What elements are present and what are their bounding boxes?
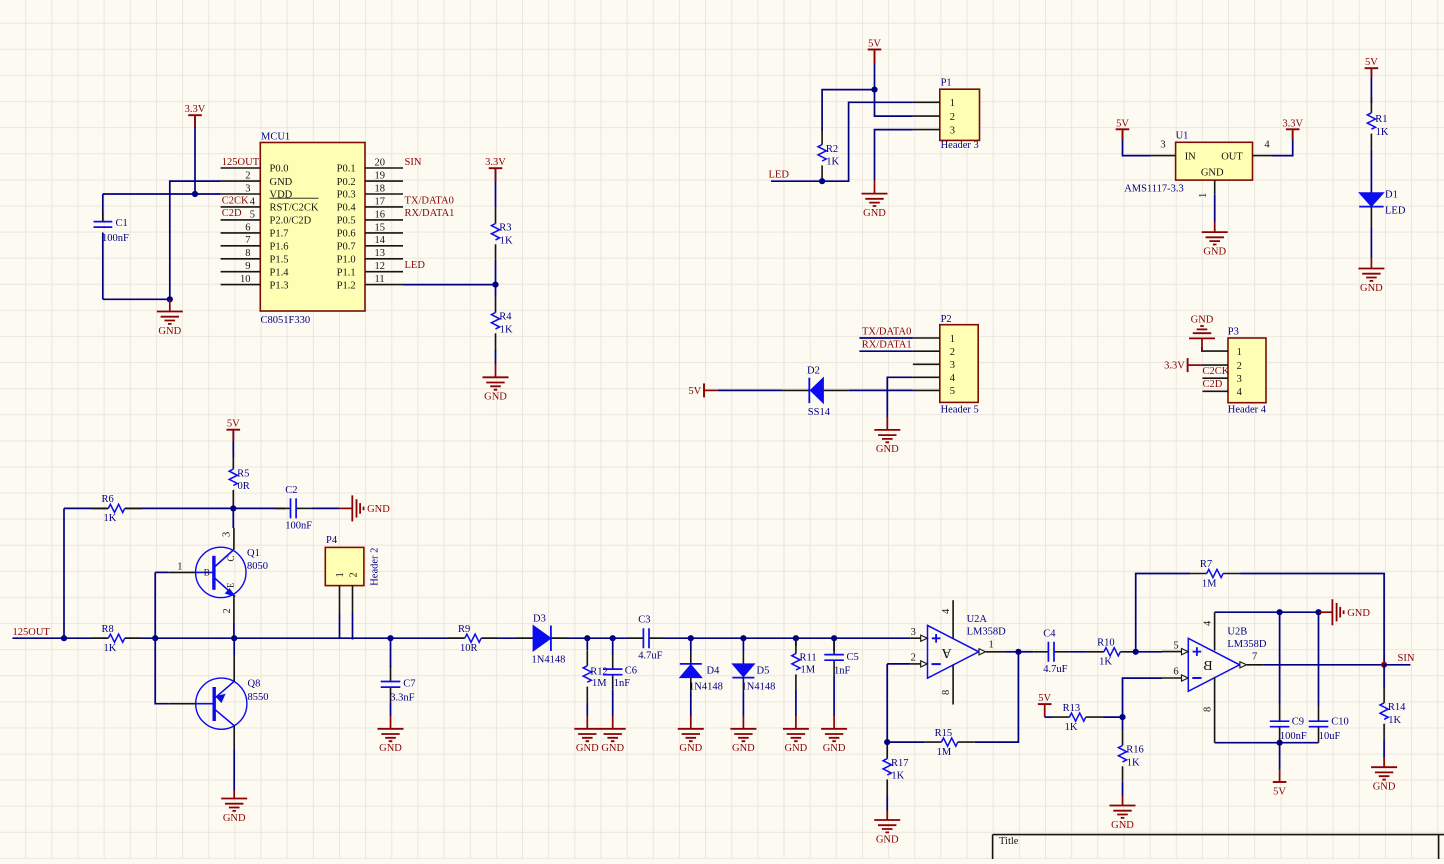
svg-text:3.3V: 3.3V	[485, 157, 506, 168]
power 5V at R13	[1038, 703, 1052, 705]
ground GND below D1	[1370, 258, 1372, 269]
svg-text:1M: 1M	[1202, 578, 1217, 589]
svg-text:R9: R9	[458, 624, 470, 635]
svg-text:P3: P3	[1228, 327, 1239, 338]
power 5V above R1	[1370, 70, 1372, 104]
junction bus/D4	[688, 635, 694, 641]
svg-text:R4: R4	[499, 312, 512, 323]
power 3.3V above R3	[495, 169, 497, 208]
MCU left pins	[221, 167, 261, 169]
transistor Q1 8050	[196, 547, 246, 597]
svg-text:18: 18	[375, 183, 386, 194]
svg-text:SIN: SIN	[1398, 653, 1415, 664]
op-amp U2B LM358D	[1188, 638, 1239, 691]
svg-text:12: 12	[375, 261, 386, 272]
U1 pin 3	[1151, 155, 1176, 157]
svg-text:GND: GND	[270, 177, 293, 188]
svg-text:C2D: C2D	[1203, 379, 1223, 390]
svg-text:3.3V: 3.3V	[1282, 118, 1303, 129]
resistor R13 1K	[1052, 716, 1069, 718]
svg-text:R7: R7	[1200, 559, 1212, 570]
svg-text:P1.7: P1.7	[270, 229, 289, 240]
junction SIN node	[1381, 662, 1387, 668]
U2B pin 5 input	[1162, 651, 1182, 653]
svg-text:1K: 1K	[500, 236, 513, 247]
capacitor C5 1nF	[833, 638, 835, 651]
svg-text:Title: Title	[999, 836, 1019, 847]
svg-text:P1.5: P1.5	[270, 255, 289, 266]
resistor R11 1M	[795, 638, 797, 646]
svg-text:Q1: Q1	[247, 548, 260, 559]
svg-text:LED: LED	[1385, 206, 1406, 217]
svg-text:C5: C5	[847, 652, 859, 663]
svg-text:19: 19	[375, 171, 386, 182]
svg-text:C2CK: C2CK	[1203, 366, 1230, 377]
svg-text:4: 4	[250, 196, 256, 207]
junction bus/Q emitters	[231, 635, 237, 641]
junction bus/R6	[61, 635, 67, 641]
svg-text:4: 4	[1264, 139, 1270, 150]
wire 5V branch to R2	[822, 90, 874, 131]
svg-text:P0.5: P0.5	[337, 216, 356, 227]
svg-text:3.3V: 3.3V	[1164, 361, 1185, 372]
power 3.3V at P3 pin 2	[1187, 358, 1189, 372]
svg-text:GND: GND	[785, 743, 808, 754]
svg-text:1: 1	[950, 334, 955, 345]
ground GND below D5	[742, 715, 744, 729]
svg-text:P2.0/C2D: P2.0/C2D	[270, 216, 312, 227]
svg-text:P0.2: P0.2	[337, 177, 356, 188]
svg-text:2: 2	[950, 112, 955, 123]
svg-text:17: 17	[375, 196, 386, 207]
wire R10 to junction	[1136, 651, 1138, 653]
svg-text:5V: 5V	[227, 419, 240, 430]
svg-text:A: A	[941, 645, 952, 660]
svg-text:U1: U1	[1176, 130, 1189, 141]
ground GND below R11	[795, 715, 797, 729]
svg-text:R13: R13	[1063, 703, 1081, 714]
P3 pins	[1203, 350, 1229, 352]
svg-text:C1: C1	[116, 218, 128, 229]
U2B top rail	[1215, 611, 1319, 613]
svg-text:R10: R10	[1097, 638, 1115, 649]
junction top rail/C9	[1277, 609, 1283, 615]
junction R10/R7/pin5	[1133, 649, 1139, 655]
Q8 collector pin to ground	[233, 726, 235, 750]
svg-text:MCU1: MCU1	[261, 131, 290, 142]
svg-text:3: 3	[1237, 374, 1242, 385]
wire junction up to U2B pin 6	[1123, 678, 1163, 717]
svg-text:D2: D2	[807, 366, 820, 377]
svg-text:0R: 0R	[238, 481, 250, 492]
diode D3 1N4148	[516, 637, 533, 639]
svg-text:P1.4: P1.4	[270, 267, 290, 278]
U2A pin 8 stub	[952, 665, 954, 705]
svg-text:3: 3	[950, 125, 955, 136]
resistor R6 1K	[91, 507, 108, 509]
svg-text:3.3V: 3.3V	[185, 104, 206, 115]
resistor R9 10R	[448, 637, 465, 639]
Q1 base pin	[168, 571, 195, 573]
P4 pins down to bus	[339, 586, 341, 613]
svg-text:LM358D: LM358D	[1227, 639, 1267, 650]
svg-text:GND: GND	[679, 743, 702, 754]
ground GND below P1	[874, 180, 876, 194]
resistor R17 1K	[886, 741, 888, 744]
svg-text:1N4148: 1N4148	[532, 654, 566, 665]
svg-text:1: 1	[989, 639, 994, 650]
power 3.3V at MCU	[194, 117, 196, 194]
svg-text:1: 1	[177, 562, 182, 573]
svg-text:R12: R12	[590, 666, 608, 677]
svg-text:1K: 1K	[104, 513, 117, 524]
MCU1 C8051F330 body	[260, 143, 365, 312]
svg-text:GND: GND	[1201, 167, 1224, 178]
power 5V at U1 input	[1123, 131, 1151, 156]
wire P1 pin 1 to LED net	[771, 102, 913, 181]
svg-text:2: 2	[245, 171, 250, 182]
U2B pin 4 stub to top rail	[1214, 612, 1216, 650]
svg-text:TX/DATA0: TX/DATA0	[862, 327, 911, 338]
junction top rail/C10	[1315, 609, 1321, 615]
svg-text:9: 9	[245, 261, 250, 272]
capacitor C2 100nF	[233, 507, 285, 509]
svg-text:4: 4	[950, 373, 956, 384]
wire P2 pin 4 to ground	[887, 377, 913, 417]
svg-text:3: 3	[222, 532, 233, 537]
svg-text:2: 2	[222, 608, 233, 613]
junction bus/R12	[584, 635, 590, 641]
svg-text:OUT: OUT	[1221, 151, 1243, 162]
wire R7 to SIN riser	[1240, 574, 1384, 665]
svg-text:GND: GND	[1373, 782, 1396, 793]
resistor R16 1K	[1122, 730, 1124, 746]
svg-text:15: 15	[375, 222, 386, 233]
wire R17 top	[886, 664, 888, 742]
svg-text:5: 5	[950, 386, 955, 397]
svg-text:R1: R1	[1375, 114, 1387, 125]
wire P3 pin 1 up to flipped ground	[1201, 347, 1204, 351]
wire collector Q1 to R5 node	[232, 508, 234, 528]
P2 pins	[913, 337, 940, 339]
ground GND below C1	[169, 299, 171, 311]
header P1 body	[940, 89, 980, 140]
svg-text:5V: 5V	[1116, 118, 1129, 129]
resistor R3 1K	[495, 208, 497, 224]
svg-text:5V: 5V	[1038, 693, 1051, 704]
svg-text:1K: 1K	[891, 771, 904, 782]
svg-text:125OUT: 125OUT	[222, 157, 260, 168]
header P2 body	[940, 325, 978, 403]
svg-text:1K: 1K	[826, 157, 839, 168]
svg-text:5V: 5V	[1273, 787, 1286, 798]
junction R2/LED	[819, 178, 825, 184]
ground GND below C7	[390, 715, 392, 729]
svg-text:8050: 8050	[247, 561, 268, 572]
svg-text:GND: GND	[1203, 246, 1226, 257]
svg-text:GND: GND	[1111, 820, 1134, 831]
svg-text:P4: P4	[326, 535, 338, 546]
resistor R5 0R	[232, 454, 234, 470]
junction 5V node	[871, 87, 877, 93]
svg-text:GND: GND	[1360, 283, 1383, 294]
svg-text:R6: R6	[102, 494, 114, 505]
svg-text:1: 1	[335, 572, 346, 577]
svg-text:3.3nF: 3.3nF	[390, 692, 414, 703]
svg-text:P0.6: P0.6	[337, 229, 356, 240]
wire D2 to P2 pin 5	[849, 389, 913, 391]
resistor R1 1K	[1370, 97, 1372, 113]
op-amp U2A LM358D	[928, 625, 979, 678]
capacitor C4 4.7uF	[1033, 651, 1048, 653]
svg-text:RST/C2CK: RST/C2CK	[270, 203, 319, 214]
svg-text:P1.6: P1.6	[270, 242, 289, 253]
capacitor C10 10uF	[1318, 612, 1320, 705]
svg-text:2: 2	[348, 572, 359, 577]
svg-text:1K: 1K	[1388, 715, 1401, 726]
svg-text:1M: 1M	[937, 747, 952, 758]
svg-text:1K: 1K	[1127, 758, 1140, 769]
capacitor C7 3.3nF	[390, 638, 392, 667]
wire main 125OUT bus	[13, 637, 108, 639]
svg-text:U2B: U2B	[1227, 627, 1247, 638]
svg-text:C2CK: C2CK	[222, 195, 249, 206]
svg-text:10uF: 10uF	[1319, 731, 1341, 742]
svg-text:P0.4: P0.4	[337, 203, 357, 214]
svg-text:P0.0: P0.0	[270, 164, 289, 175]
svg-text:4: 4	[1202, 620, 1213, 626]
svg-text:16: 16	[375, 209, 386, 220]
svg-text:P1: P1	[941, 77, 952, 88]
wire R6 down to 125OUT bus	[63, 508, 65, 638]
svg-text:8: 8	[245, 248, 250, 259]
U1 GND pin	[1214, 180, 1216, 194]
svg-text:Q8: Q8	[248, 678, 261, 689]
svg-text:2: 2	[950, 347, 955, 358]
svg-text:RX/DATA1: RX/DATA1	[405, 208, 455, 219]
diode D2 SS14	[782, 389, 809, 391]
svg-text:C4: C4	[1043, 628, 1056, 639]
svg-text:4: 4	[941, 608, 952, 614]
power 5V at D2 anode	[703, 383, 705, 397]
resistor R2 1K	[821, 129, 823, 145]
transistor Q8 8550	[196, 678, 247, 729]
svg-text:20: 20	[375, 157, 386, 168]
svg-text:C2D: C2D	[222, 208, 242, 219]
U2A pin 3 input	[910, 637, 921, 639]
capacitor C3 4.7uF	[628, 637, 643, 639]
svg-text:1M: 1M	[592, 678, 607, 689]
svg-text:GND: GND	[223, 813, 246, 824]
svg-text:7: 7	[1252, 652, 1257, 663]
U2A pin 4 stub	[952, 600, 954, 638]
svg-text:C7: C7	[403, 678, 415, 689]
svg-text:R3: R3	[499, 223, 511, 234]
svg-text:GND: GND	[876, 444, 899, 455]
svg-text:VDD: VDD	[270, 190, 293, 201]
capacitor C1 100nF	[102, 194, 104, 222]
svg-text:P0.7: P0.7	[337, 242, 356, 253]
svg-text:Header 3: Header 3	[941, 140, 979, 151]
svg-text:1K: 1K	[1099, 657, 1112, 668]
ground GND below U1	[1214, 222, 1216, 233]
header P3 body	[1228, 338, 1266, 403]
svg-text:4.7uF: 4.7uF	[1043, 664, 1067, 675]
wire base rail	[155, 571, 168, 573]
svg-text:5: 5	[250, 209, 255, 220]
Q8 base pin	[169, 703, 196, 705]
junction R15/R17	[884, 739, 890, 745]
junction R13/R16/pin6	[1119, 714, 1125, 720]
capacitor C6 1nF	[612, 638, 614, 655]
U2A output pin 1	[979, 649, 986, 655]
wire R6 row	[64, 507, 108, 509]
power 5V below bottom rail	[1279, 743, 1281, 769]
diode D5 1N4148	[742, 638, 744, 651]
svg-text:GND: GND	[823, 743, 846, 754]
svg-text:B: B	[204, 568, 210, 578]
ground GND below R14	[1383, 757, 1385, 767]
svg-text:1K: 1K	[104, 643, 117, 654]
svg-text:1: 1	[950, 98, 955, 109]
svg-text:GND: GND	[367, 504, 390, 515]
ground GND below R4	[495, 364, 497, 377]
svg-text:LM358D: LM358D	[967, 626, 1007, 637]
power 5V above R5	[232, 431, 234, 457]
svg-text:1: 1	[1198, 193, 1209, 198]
resistor R10 1K	[1087, 651, 1104, 653]
svg-text:GND: GND	[876, 834, 899, 845]
svg-text:1: 1	[1237, 347, 1242, 358]
svg-text:2: 2	[1237, 361, 1242, 372]
svg-text:C3: C3	[638, 615, 650, 626]
junction bus/C7	[387, 635, 393, 641]
resistor R12 1M	[586, 638, 588, 650]
svg-text:GND: GND	[601, 743, 624, 754]
svg-text:1K: 1K	[500, 325, 513, 336]
resistor R7 1M	[1190, 573, 1207, 575]
svg-text:R5: R5	[237, 468, 249, 479]
svg-text:GND: GND	[484, 392, 507, 403]
svg-text:SIN: SIN	[405, 157, 422, 168]
header P4 body	[325, 547, 364, 585]
svg-text:E: E	[226, 582, 236, 588]
wire 5V to P1 pin 2	[875, 90, 913, 117]
svg-text:6: 6	[245, 222, 250, 233]
ground GND right of C2	[339, 507, 352, 509]
U2B output pin 7	[1240, 662, 1247, 668]
svg-text:D5: D5	[757, 666, 770, 677]
junction bottom rail/5V	[1277, 740, 1283, 746]
svg-text:LED: LED	[769, 170, 790, 181]
svg-text:1K: 1K	[1065, 722, 1078, 733]
svg-text:C10: C10	[1331, 717, 1349, 728]
svg-text:R15: R15	[935, 728, 953, 739]
svg-text:8550: 8550	[248, 692, 269, 703]
svg-text:1N4148: 1N4148	[689, 681, 723, 692]
svg-text:Header 2: Header 2	[369, 548, 380, 586]
svg-text:D1: D1	[1385, 189, 1398, 200]
wire MCU pin 11 to R3/R4 junction	[403, 284, 496, 286]
wire output to C4	[1018, 651, 1033, 653]
P1 pins	[913, 101, 940, 103]
svg-text:125OUT: 125OUT	[13, 627, 51, 638]
svg-text:7: 7	[245, 235, 250, 246]
junction R5/C2 row	[230, 505, 236, 511]
junction GND/C1	[167, 296, 173, 302]
diode D4 1N4148	[690, 638, 692, 651]
ground GND below R17	[886, 811, 888, 821]
svg-text:Header 5: Header 5	[941, 404, 979, 415]
svg-text:P1.1: P1.1	[337, 267, 356, 278]
junction bus/base rail	[152, 635, 158, 641]
svg-text:LED: LED	[405, 260, 426, 271]
junction bus/C5	[831, 635, 837, 641]
svg-text:SS14: SS14	[808, 407, 831, 418]
junction bus/R11	[793, 635, 799, 641]
U2A pin 2 input	[887, 663, 910, 665]
svg-text:GND: GND	[1191, 315, 1214, 326]
resistor R15 1M	[887, 741, 924, 743]
ground GND below R12	[586, 715, 588, 729]
svg-text:IN: IN	[1185, 151, 1196, 162]
svg-text:5V: 5V	[868, 39, 881, 50]
svg-text:3: 3	[911, 627, 916, 638]
svg-text:D4: D4	[707, 666, 721, 677]
wire GND net MCU pin 2 down to ground	[170, 181, 221, 299]
svg-text:11: 11	[375, 274, 385, 285]
U2B pin 6 input	[1162, 677, 1182, 679]
svg-text:GND: GND	[732, 743, 755, 754]
svg-text:P1.3: P1.3	[270, 280, 289, 291]
regulator U1 AMS1117-3.3 body	[1176, 142, 1253, 180]
svg-text:2: 2	[911, 653, 916, 664]
wire VDD net to MCU pin 3 and C1	[103, 193, 221, 195]
svg-text:B: B	[1203, 659, 1212, 674]
junction R3/R4	[492, 282, 498, 288]
svg-text:P0.1: P0.1	[337, 164, 356, 175]
wire junction to U2B pin 5	[1136, 651, 1162, 653]
svg-text:P1.2: P1.2	[337, 280, 356, 291]
svg-text:8: 8	[941, 690, 952, 695]
title block border	[993, 834, 1444, 836]
svg-text:C: C	[226, 555, 236, 561]
svg-text:5V: 5V	[688, 386, 701, 397]
svg-text:4.7uF: 4.7uF	[638, 651, 662, 662]
svg-text:3: 3	[950, 360, 955, 371]
svg-text:GND: GND	[1347, 608, 1370, 619]
MCU right pins	[365, 167, 403, 169]
svg-text:5V: 5V	[1365, 57, 1378, 68]
svg-text:Header 4: Header 4	[1228, 404, 1267, 415]
ground GND below C5	[833, 715, 835, 729]
svg-text:GND: GND	[379, 743, 402, 754]
junction VDD/3.3V	[192, 191, 198, 197]
svg-text:4: 4	[1237, 387, 1243, 398]
junction bus/D5	[740, 635, 746, 641]
capacitor C9 100nF	[1279, 612, 1281, 705]
LED D1	[1359, 193, 1383, 207]
svg-text:R17: R17	[891, 758, 909, 769]
svg-text:D3: D3	[533, 613, 546, 624]
svg-text:14: 14	[375, 235, 386, 246]
power 5V above P1	[874, 51, 876, 90]
ground GND flipped above P3	[1201, 338, 1203, 351]
svg-text:1M: 1M	[801, 665, 816, 676]
svg-text:R2: R2	[826, 144, 838, 155]
svg-text:100nF: 100nF	[102, 233, 129, 244]
ground GND below Q8	[233, 790, 235, 799]
